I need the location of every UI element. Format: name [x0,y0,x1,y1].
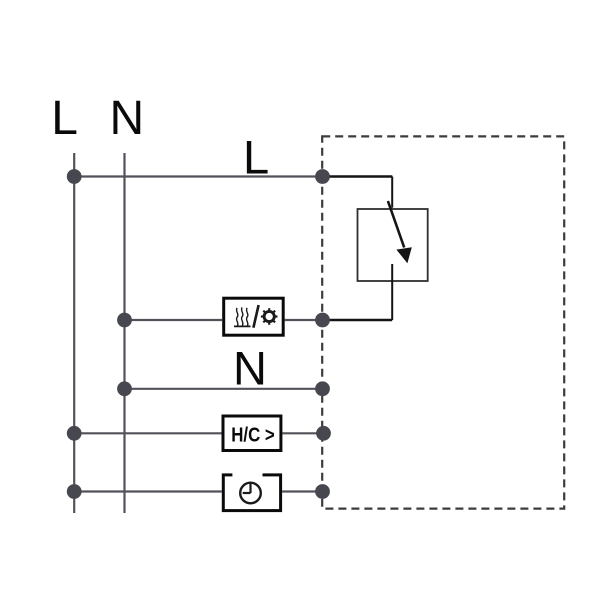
heating icon: wavy line 2 [241,308,243,326]
node: N line / wire 3 junction [117,381,132,396]
wire: row 4 right segment (H/C box to node) [282,432,323,434]
wire: black segment from node to switch (top) [323,175,393,178]
wire: black segment from switch to node (bottom return) [391,264,393,320]
node: wire 4 at enclosure [316,426,331,441]
wire: row 4 left segment (L line to H/C box) [74,432,221,434]
gap in timer box top border [232,472,262,478]
node: wire 5 at enclosure [315,484,330,499]
slash separator [253,305,258,328]
switch box (relay contact) [358,209,428,281]
wire: black return to node [323,319,393,322]
timer box [223,475,280,511]
wire: row 5 left segment (L line to timer box) [74,490,222,492]
node: wire 1 at enclosure [315,169,330,184]
timer icon: hour hand [243,492,251,494]
node: L line / wire 5 junction [67,484,82,499]
switch upper pin [391,177,393,208]
switch arrowhead [396,247,411,263]
timer icon: minute hand [249,484,251,493]
wire: vertical supply line N [123,153,125,513]
dashed enclosure (thermostat outline) [322,136,564,508]
wire: row 3 N return [125,388,323,390]
node: wire 2 at enclosure [315,313,330,328]
load box: heating/cooling output [224,298,284,335]
heating icon: wavy line 3 [246,308,248,326]
switch lever [388,201,404,248]
svg-text:L: L [243,130,269,183]
wire: row 2 left segment (N line to heat/cool load box) [125,319,223,321]
heating icon: base bar [234,325,251,327]
wire: vertical supply line L [73,153,75,513]
wire: row 5 right segment (timer box to node) [282,490,322,492]
svg-text:N: N [110,92,145,145]
node: N line / wire 2 junction [117,313,132,328]
svg-text:L: L [51,92,78,145]
node: L line / wire 4 junction [67,426,82,441]
heating icon: wavy line 1 [236,308,238,326]
H/C changeover box [223,416,281,451]
svg-text:H/C >: H/C > [231,423,275,446]
node: L line / wire 1 junction [67,169,82,184]
timer icon: clock face [240,483,261,504]
cooling icon: sun/snowflake rays [261,308,278,325]
node: wire 3 at enclosure [315,381,330,396]
wire: L feed (horizontal, row 1) [74,175,322,177]
wire: row 2 right segment (load box to node) [285,319,323,321]
svg-text:N: N [233,341,267,394]
cooling icon: ring [264,311,274,321]
